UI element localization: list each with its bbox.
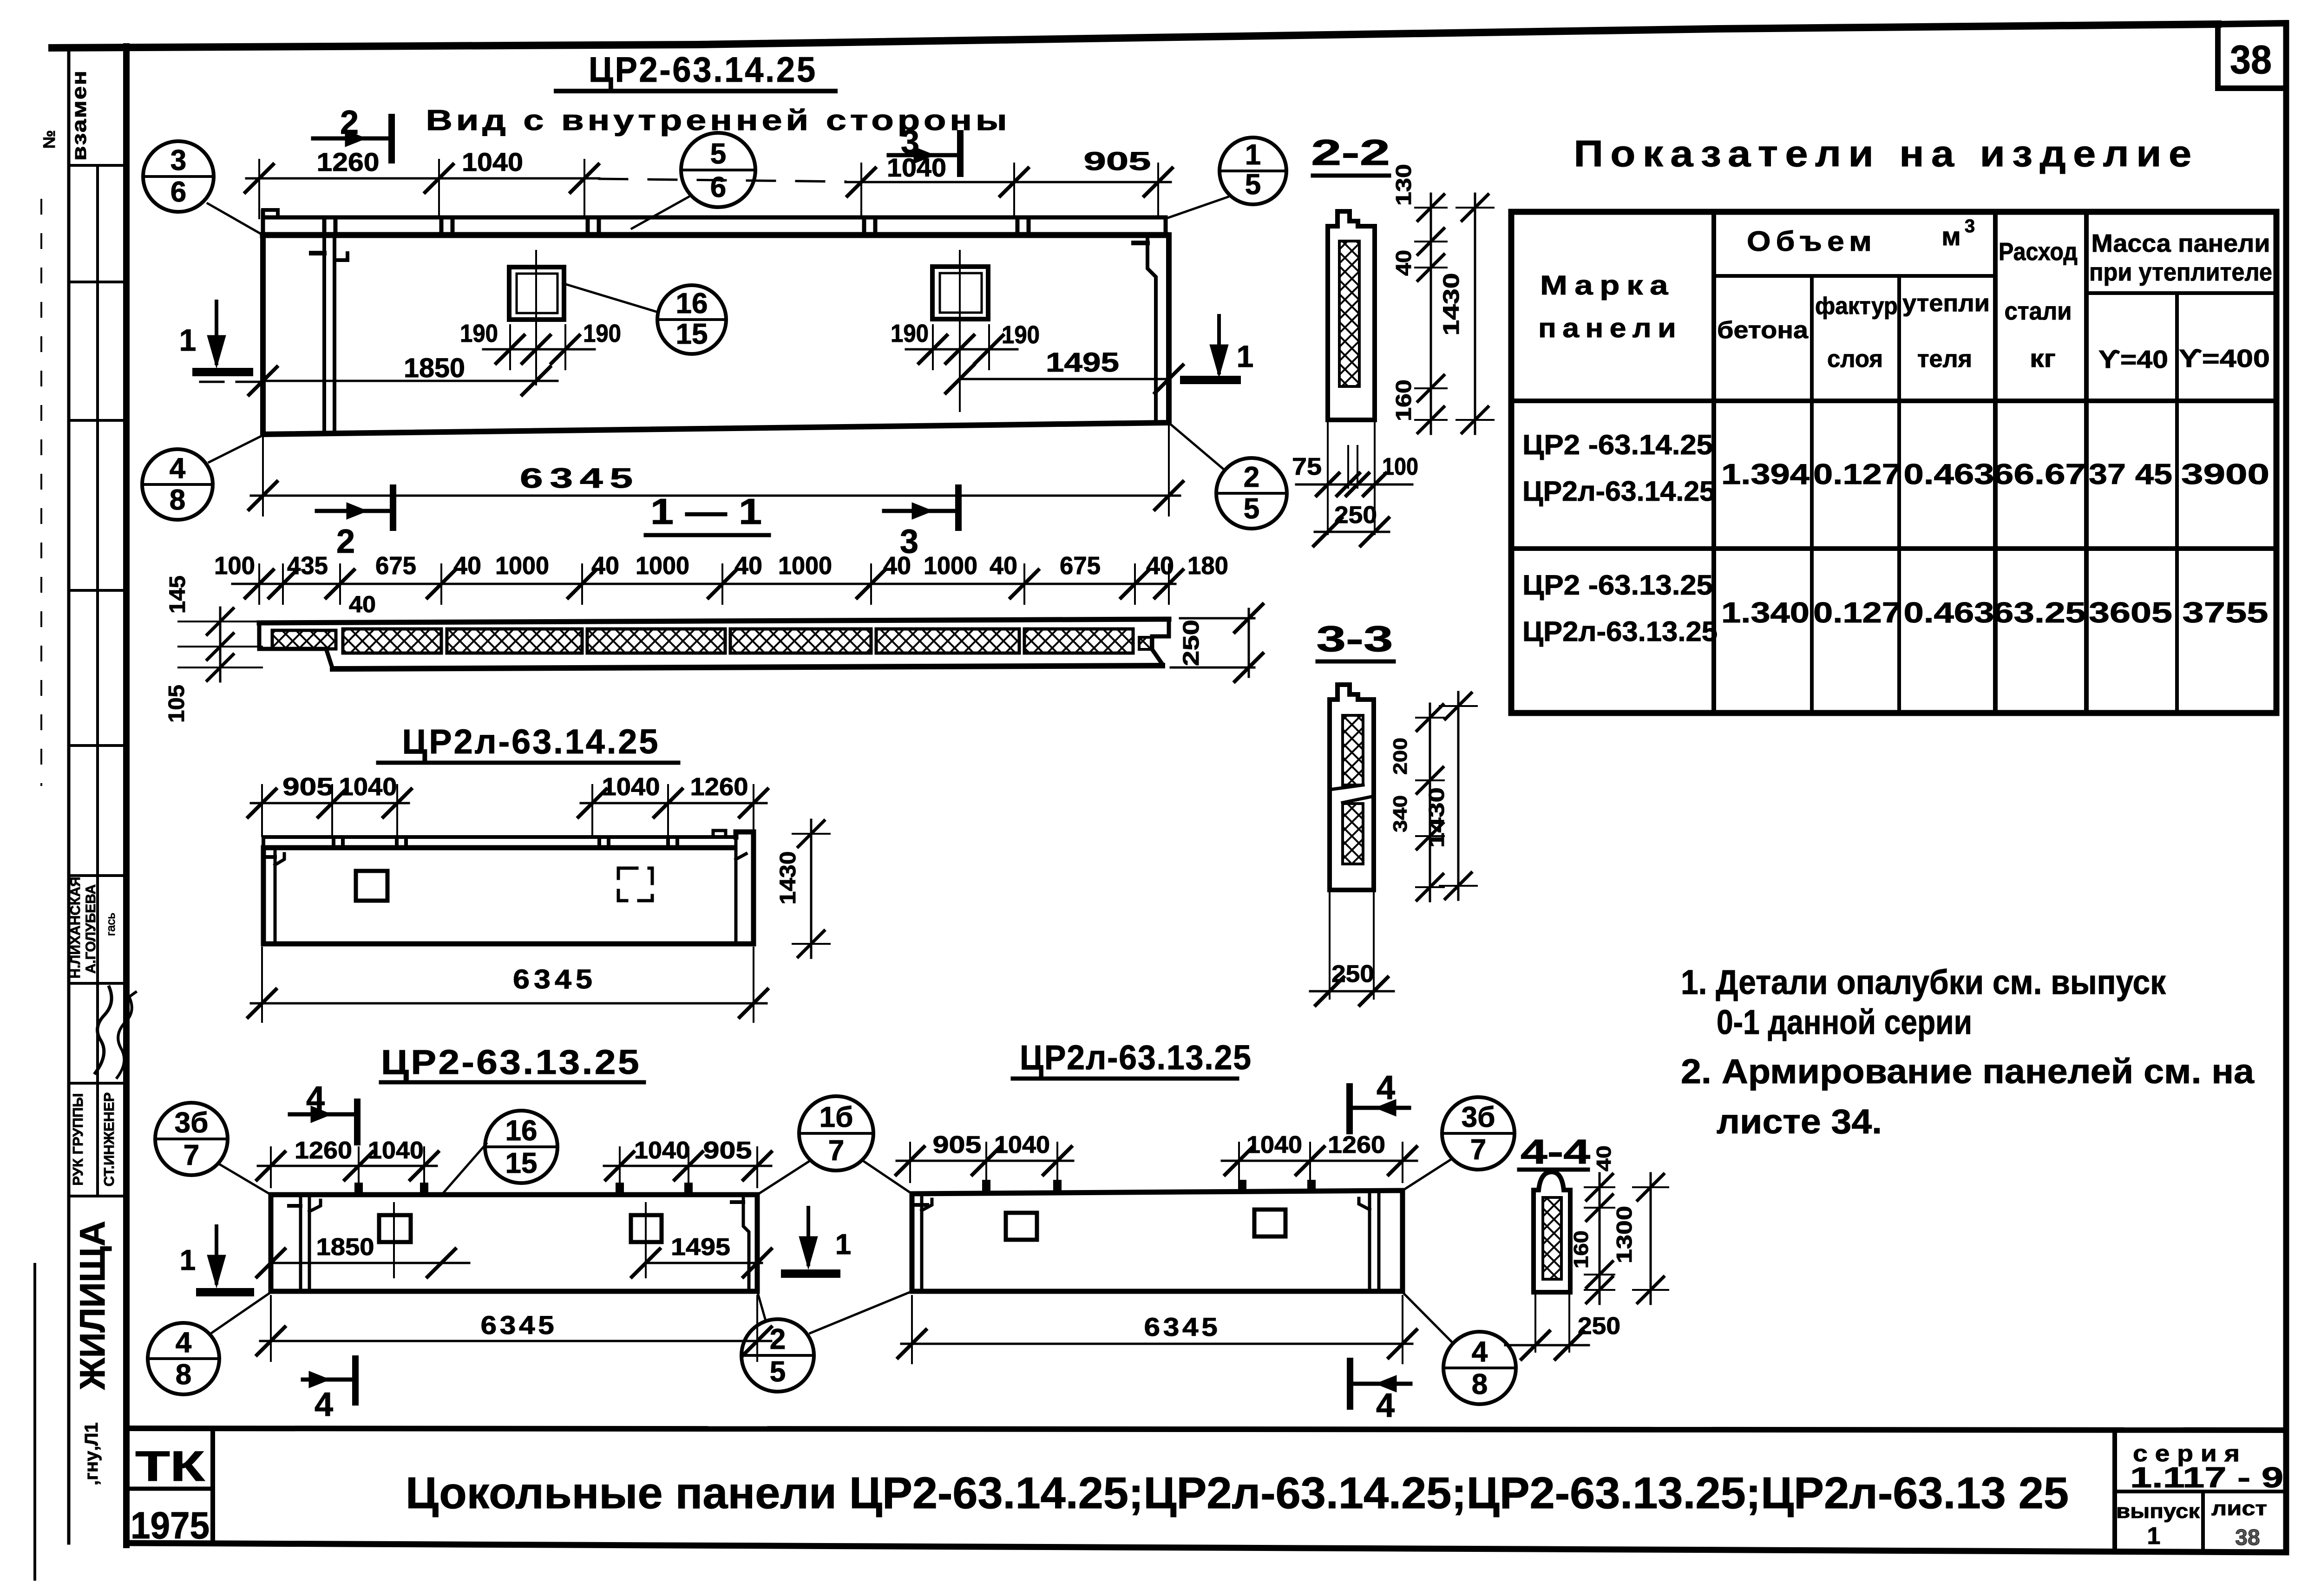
svg-text:4: 4: [1376, 1387, 1395, 1424]
middle drawing dims 905/1040 1040/1260: [248, 773, 767, 836]
middle panel square solid: [356, 871, 387, 901]
dims 905/1040 (right drawing left side): [896, 1132, 1073, 1182]
dims 1040/1260 (right drawing right side): [1222, 1132, 1417, 1182]
dims 200/340/1430 (3-3): [1389, 692, 1477, 901]
title block strip: [126, 1428, 2286, 1430]
svg-text:1040: 1040: [368, 1137, 424, 1164]
leader 16/15 bottom: [441, 1144, 486, 1195]
svg-text:1 — 1: 1 — 1: [650, 491, 762, 532]
svg-text:ϒ=40: ϒ=40: [2098, 346, 2168, 373]
svg-text:63.25: 63.25: [1993, 597, 2086, 629]
svg-text:6345: 6345: [1144, 1312, 1221, 1341]
svg-text:6: 6: [170, 176, 186, 208]
svg-text:340: 340: [1389, 795, 1411, 832]
svg-text:3-3: 3-3: [1317, 618, 1393, 659]
svg-text:0.127: 0.127: [1813, 458, 1901, 491]
svg-text:1000: 1000: [778, 552, 832, 580]
svg-text:А.ГОЛУБЕВА: А.ГОЛУБЕВА: [83, 884, 98, 974]
notes: [1681, 963, 2255, 1141]
svg-text:ЦР2 -63.13.25: ЦР2 -63.13.25: [1522, 569, 1713, 601]
svg-text:ТК: ТК: [135, 1443, 205, 1490]
svg-text:0.127: 0.127: [1813, 597, 1901, 629]
svg-text:5: 5: [1245, 169, 1261, 201]
svg-text:Масса панели: Масса панели: [2092, 229, 2270, 257]
section mark 3 (bottom row): [955, 488, 962, 528]
dim 145/105 (left of 1-1): [164, 576, 262, 723]
svg-text:1040: 1040: [602, 773, 660, 801]
svg-text:5: 5: [770, 1356, 786, 1388]
svg-text:1. Детали опалубки см. выпу: 1. Детали опалубки см. выпуск: [1681, 963, 2166, 1001]
svg-text:160: 160: [1570, 1230, 1593, 1269]
svg-text:1.340: 1.340: [1721, 597, 1810, 629]
svg-text:панели: панели: [1538, 313, 1682, 343]
svg-text:2: 2: [340, 104, 359, 141]
dims 1040/905 (left drawing right side): [604, 1137, 771, 1187]
svg-text:№: №: [39, 130, 59, 149]
svg-text:утепли: утепли: [1902, 290, 1990, 317]
svg-text:1б: 1б: [820, 1101, 853, 1133]
svg-text:1: 1: [1245, 139, 1261, 171]
marker circle 3b/7 (right): [1442, 1097, 1515, 1170]
svg-text:1260: 1260: [317, 147, 380, 177]
svg-text:2: 2: [336, 523, 355, 560]
svg-text:1: 1: [2147, 1523, 2161, 1550]
svg-text:РУК ГРУППЫ: РУК ГРУППЫ: [70, 1093, 86, 1185]
svg-text:1430: 1430: [1424, 787, 1449, 848]
table row 1: [1522, 429, 2269, 507]
svg-text:1: 1: [835, 1229, 851, 1261]
svg-text:4-4: 4-4: [1521, 1132, 1590, 1171]
svg-text:905: 905: [282, 773, 334, 801]
squares in bottom-right panel: [1006, 1213, 1037, 1240]
svg-text:кг: кг: [2030, 345, 2056, 373]
leaders 1b/7: [757, 1160, 811, 1195]
svg-text:4: 4: [1377, 1069, 1395, 1106]
svg-text:2-2: 2-2: [1311, 132, 1390, 173]
svg-text:0.463: 0.463: [1904, 597, 1994, 629]
svg-text:7: 7: [828, 1135, 844, 1167]
marker circle 1b/7: [799, 1096, 873, 1171]
marker circle 16/15: [657, 285, 726, 354]
svg-text:75: 75: [1292, 453, 1322, 480]
dim 250 below 4-4: [1505, 1295, 1620, 1359]
svg-text:ЦР2-63.14.25: ЦР2-63.14.25: [589, 50, 817, 90]
section mark 4 (top, left drawing): [354, 1102, 361, 1142]
dim 1495 (bottom-left): [632, 1234, 771, 1277]
svg-text:145: 145: [165, 576, 190, 614]
TK box: [127, 1430, 213, 1547]
svg-text:лист: лист: [2211, 1497, 2267, 1520]
svg-text:Объем: Объем: [1747, 226, 1877, 257]
marker circle 4/8 (bottom left): [148, 1323, 219, 1394]
svg-text:675: 675: [375, 552, 416, 580]
svg-text:СТ.ИНЖЕНЕР: СТ.ИНЖЕНЕР: [101, 1092, 117, 1187]
svg-text:6345: 6345: [513, 964, 597, 994]
svg-text:40: 40: [591, 552, 619, 580]
leader 2/5: [1170, 424, 1225, 470]
svg-text:0-1 данной серии: 0-1 данной серии: [1717, 1003, 1972, 1041]
svg-text:40: 40: [453, 552, 481, 580]
svg-text:66.67: 66.67: [1993, 458, 2086, 491]
svg-text:1260: 1260: [690, 773, 748, 801]
middle panel square dashed: [618, 868, 652, 901]
svg-text:2: 2: [770, 1323, 786, 1355]
svg-text:3900: 3900: [2181, 458, 2269, 491]
svg-text:ЖИЛИЩА: ЖИЛИЩА: [73, 1221, 112, 1390]
marker circle 4/8 (bottom right): [1443, 1332, 1516, 1404]
indicators table: [1511, 212, 2276, 713]
svg-text:190: 190: [1002, 321, 1040, 349]
svg-text:905: 905: [1084, 146, 1151, 176]
svg-text:ЦР2л-63.13.25: ЦР2л-63.13.25: [1020, 1038, 1252, 1077]
svg-text:6: 6: [710, 171, 726, 203]
svg-text:1430: 1430: [776, 851, 800, 905]
section mark 4 (bottom, right drawing): [1347, 1361, 1353, 1406]
svg-text:37 45: 37 45: [2089, 458, 2172, 491]
svg-text:5: 5: [1244, 493, 1259, 525]
embedded square opening right: [932, 251, 988, 411]
bottom-left panel outline: [271, 1183, 757, 1291]
dims 75/100/250 below 2-2: [1292, 423, 1418, 546]
marker circle 1/5: [1220, 137, 1286, 204]
svg-text:4: 4: [306, 1080, 325, 1117]
svg-text:905: 905: [703, 1137, 752, 1164]
svg-text:3б: 3б: [175, 1107, 209, 1139]
leader 4/8 bottom-right: [1403, 1292, 1453, 1343]
svg-text:250: 250: [1179, 620, 1204, 666]
svg-text:теля: теля: [1917, 346, 1972, 373]
svg-text:1: 1: [180, 1244, 196, 1276]
svg-text:105: 105: [164, 685, 189, 723]
svg-text:905: 905: [933, 1132, 982, 1158]
svg-text:5: 5: [710, 138, 726, 170]
svg-text:180: 180: [1187, 552, 1228, 580]
page number box 38: [2218, 26, 2286, 88]
dim 6345 (bottom-left): [257, 1296, 771, 1361]
svg-text:190: 190: [460, 320, 498, 347]
svg-text:‚гну‚Л1: ‚гну‚Л1: [81, 1422, 102, 1485]
svg-text:1000: 1000: [924, 552, 977, 580]
svg-text:3: 3: [170, 144, 186, 177]
dim 1850 (bottom-left): [257, 1234, 469, 1277]
svg-text:1300: 1300: [1612, 1206, 1636, 1263]
svg-text:гась: гась: [104, 913, 118, 936]
leader 3b/7 left: [218, 1164, 271, 1195]
svg-text:1850: 1850: [316, 1234, 374, 1261]
dim 1495: [946, 347, 1183, 393]
svg-text:15: 15: [505, 1147, 538, 1179]
dim 190+190 right square: [891, 320, 1040, 369]
leaders 2/5 bottom: [757, 1291, 766, 1321]
dims 1260/1040 (left): [257, 1137, 438, 1187]
svg-text:40: 40: [1391, 250, 1416, 276]
svg-text:листе 34.: листе 34.: [1717, 1102, 1882, 1141]
svg-text:160: 160: [1391, 379, 1416, 421]
svg-text:1495: 1495: [671, 1234, 730, 1261]
svg-text:Марка: Марка: [1540, 270, 1675, 301]
svg-text:4: 4: [176, 1327, 192, 1359]
svg-text:40: 40: [883, 552, 911, 580]
svg-text:1040: 1040: [1246, 1132, 1302, 1158]
section mark 1 (left): [215, 301, 218, 363]
section mark 1 (bottom-left drawing): [215, 1226, 218, 1283]
svg-text:стали: стали: [2005, 297, 2072, 325]
svg-text:3755: 3755: [2183, 597, 2269, 629]
dim 6345 (top view): [249, 425, 1183, 516]
bottom-right panel outline: [912, 1180, 1403, 1291]
svg-text:ЦР2 -63.14.25: ЦР2 -63.14.25: [1522, 429, 1713, 460]
svg-text:8: 8: [1472, 1368, 1488, 1400]
table headers: [1538, 216, 2272, 373]
svg-text:200: 200: [1389, 738, 1411, 775]
leader 1/5: [1167, 197, 1228, 218]
svg-text:бетона: бетона: [1717, 317, 1809, 344]
svg-text:1000: 1000: [636, 552, 689, 580]
svg-text:6345: 6345: [520, 463, 640, 494]
svg-text:взамен: взамен: [68, 70, 91, 161]
svg-text:1260: 1260: [1328, 1132, 1385, 1158]
svg-text:100: 100: [1382, 453, 1418, 480]
marker circle 5/6: [681, 133, 755, 207]
section mark 4 (bottom, left drawing): [352, 1359, 359, 1402]
svg-text:4: 4: [315, 1386, 333, 1423]
middle panel outline: [263, 831, 754, 944]
svg-text:130: 130: [1391, 164, 1416, 206]
leader 16/15: [566, 284, 658, 312]
svg-text:190: 190: [583, 320, 621, 347]
svg-text:1040: 1040: [994, 1132, 1050, 1158]
dim 250 below 3-3: [1310, 893, 1394, 1005]
dims 40/160/1300 (4-4): [1570, 1145, 1668, 1304]
svg-text:Показатели на изделие: Показатели на изделие: [1574, 133, 2199, 174]
margin rotated labels: [39, 70, 136, 1485]
svg-text:1040: 1040: [339, 773, 397, 801]
dims 130/40/1430/160 (2-2): [1391, 164, 1494, 434]
left margin stamp column: [35, 47, 126, 1579]
svg-text:ЦР2л-63.14.25: ЦР2л-63.14.25: [402, 722, 660, 761]
marker circle 16/15 (bottom): [485, 1111, 557, 1183]
svg-text:2. Армирование панелей см.: 2. Армирование панелей см. на: [1681, 1052, 2255, 1091]
dim 190+190 left square: [460, 320, 621, 369]
squares in bottom-left panel: [379, 1215, 411, 1242]
section 2-2 body: [1328, 211, 1375, 420]
svg-text:38: 38: [2235, 1525, 2260, 1550]
svg-text:38: 38: [2230, 38, 2272, 82]
top dimension row 1260/1040 .. 1040/905: [245, 146, 1172, 218]
svg-text:1495: 1495: [1046, 347, 1119, 378]
leader 3b/7 right: [1403, 1159, 1452, 1190]
svg-text:выпуск: выпуск: [2116, 1500, 2200, 1523]
svg-text:1430: 1430: [1439, 273, 1464, 336]
svg-text:2: 2: [1244, 461, 1259, 493]
svg-text:250: 250: [1578, 1313, 1620, 1340]
marker circle 3/6: [143, 141, 214, 212]
dim 1850: [200, 353, 557, 395]
section mark 4 (top, right drawing): [1346, 1086, 1353, 1131]
embedded square opening left: [509, 251, 564, 385]
svg-text:1000: 1000: [495, 552, 549, 580]
svg-text:8: 8: [170, 484, 185, 516]
svg-text:1850: 1850: [404, 353, 465, 383]
svg-text:8: 8: [176, 1359, 191, 1391]
series box: [2115, 1430, 2286, 1550]
leader 4/8: [209, 435, 263, 462]
section mark 1 (bottom-right drawing): [806, 1208, 810, 1264]
svg-text:3: 3: [1965, 216, 1975, 236]
svg-text:16: 16: [676, 288, 708, 320]
svg-text:Цокольные панели ЦР2-63.14.2: Цокольные панели ЦР2-63.14.25;ЦР2л-63.14…: [406, 1468, 2069, 1518]
section 3-3 body: [1330, 685, 1374, 890]
svg-text:1040: 1040: [462, 147, 523, 177]
marker circle 2/5 (bottom): [741, 1319, 814, 1392]
leader 4/8 bottom-left: [210, 1292, 271, 1334]
section mark 2 (top): [388, 117, 395, 160]
section 4-4 body: [1534, 1172, 1570, 1292]
svg-text:слоя: слоя: [1827, 346, 1883, 373]
section 1-1 bar: [259, 619, 1169, 669]
svg-text:м: м: [1941, 222, 1960, 251]
marker circle 3b/7 (left): [155, 1103, 228, 1175]
svg-text:40: 40: [349, 591, 376, 617]
svg-text:ЦР2-63.13.25: ЦР2-63.13.25: [381, 1043, 641, 1081]
svg-text:при утеплителе: при утеплителе: [2089, 258, 2272, 286]
svg-text:1040: 1040: [634, 1137, 690, 1164]
svg-text:3605: 3605: [2089, 597, 2172, 629]
table row 2: [1522, 569, 2269, 647]
svg-text:1: 1: [179, 323, 197, 357]
svg-text:ЦР2л-63.13.25: ЦР2л-63.13.25: [1522, 616, 1718, 647]
svg-text:100: 100: [214, 552, 255, 580]
svg-text:4: 4: [1472, 1336, 1488, 1368]
svg-text:190: 190: [891, 320, 929, 347]
svg-text:675: 675: [1060, 552, 1101, 580]
svg-text:Н.ЛИХАНСКАЯ: Н.ЛИХАНСКАЯ: [68, 876, 83, 978]
dim 6345 (middle): [248, 948, 767, 1022]
dims above section 1-1: [214, 552, 1228, 617]
svg-text:40: 40: [1593, 1145, 1615, 1171]
svg-text:1975: 1975: [131, 1504, 210, 1547]
dim 6345 (bottom-right): [898, 1296, 1416, 1363]
marker circle 2/5 (top view): [1216, 458, 1287, 529]
marker circle 4/8 (top view): [142, 449, 213, 520]
svg-text:7: 7: [1470, 1134, 1486, 1166]
svg-text:7: 7: [184, 1139, 199, 1171]
leader 5/6: [632, 197, 688, 229]
dim 1430 (middle right): [776, 820, 830, 958]
svg-text:фактур: фактур: [1815, 293, 1898, 320]
svg-text:0.463: 0.463: [1904, 458, 1994, 491]
svg-text:6345: 6345: [481, 1310, 557, 1340]
section mark 3 (top): [957, 133, 964, 174]
svg-text:40: 40: [734, 552, 762, 580]
svg-text:16: 16: [505, 1115, 538, 1147]
svg-text:1: 1: [1237, 339, 1254, 373]
svg-text:Расход: Расход: [1999, 238, 2078, 266]
section mark 1 (right): [1217, 316, 1221, 373]
svg-text:40: 40: [990, 552, 1017, 580]
svg-text:1260: 1260: [295, 1137, 352, 1164]
svg-text:ЦР2л-63.14.25: ЦР2л-63.14.25: [1522, 476, 1715, 507]
section mark 2 (bottom row): [390, 488, 396, 528]
svg-text:1.117 - 9: 1.117 - 9: [2130, 1462, 2283, 1494]
svg-text:4: 4: [170, 452, 186, 484]
svg-text:250: 250: [1331, 961, 1374, 988]
svg-text:15: 15: [676, 318, 708, 350]
dim 250 (right of 1-1): [1171, 604, 1263, 681]
svg-text:3б: 3б: [1462, 1101, 1495, 1133]
leader 3/6: [208, 203, 263, 235]
svg-text:ϒ=400: ϒ=400: [2179, 345, 2270, 373]
svg-text:3: 3: [901, 124, 919, 161]
svg-text:1.394: 1.394: [1721, 458, 1810, 491]
top panel view CP2-63.14.25: [263, 210, 1169, 434]
svg-text:250: 250: [1334, 502, 1377, 529]
